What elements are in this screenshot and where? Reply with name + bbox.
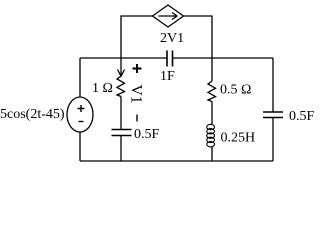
voltage source VS circle	[67, 97, 93, 132]
capacitor 0.5F middle plates	[112, 130, 132, 136]
svg-text:0.25H: 0.25H	[221, 131, 256, 146]
wire middle branch bottom	[120, 136, 122, 161]
capacitor 0.5F right plates	[263, 112, 283, 118]
svg-text:1 Ω: 1 Ω	[92, 81, 113, 96]
bottom wire	[80, 160, 273, 162]
svg-text:V1: V1	[128, 85, 145, 104]
wire right branch upper	[272, 58, 274, 112]
wire right branch lower	[272, 118, 274, 161]
svg-text:1F: 1F	[160, 69, 175, 84]
VS plus sign	[78, 105, 85, 112]
inductor L1 0.25H coil	[207, 124, 215, 147]
capacitor 1F plates	[167, 51, 173, 67]
resistor R2 0.5ohm zigzag	[208, 81, 216, 102]
wire middle horizontal, right of 1F cap	[173, 57, 274, 59]
wire R2 to L1	[211, 102, 213, 125]
svg-text:2V1: 2V1	[160, 31, 184, 46]
arrowhead current into R1	[118, 70, 125, 77]
wire R1 to C 0.5F	[120, 97, 122, 130]
wire left branch upper	[79, 58, 81, 97]
svg-text:0.5F: 0.5F	[134, 127, 160, 142]
dependent current source 2V1 diamond	[153, 5, 184, 27]
resistor R1 1ohm zigzag	[117, 76, 125, 97]
wire left branch lower	[79, 132, 81, 161]
svg-text:0.5F: 0.5F	[289, 109, 315, 124]
VS minus sign	[79, 121, 84, 123]
wire middle horizontal, left of 1F cap	[80, 57, 167, 59]
plus sign of V1 polarity	[133, 64, 142, 73]
wire L1 bottom	[211, 147, 213, 162]
wire diamond right to top-right corner down	[184, 16, 213, 58]
wire middle branch with current arrow	[120, 58, 122, 75]
svg-text:0.5 Ω: 0.5 Ω	[220, 83, 251, 98]
wire right-mid branch upper	[211, 58, 213, 81]
wire top-left of loop	[121, 16, 153, 58]
svg-text:5cos(2t-45): 5cos(2t-45)	[0, 107, 65, 122]
minus sign of V1 polarity (rotated, vertical tick)	[136, 115, 138, 122]
